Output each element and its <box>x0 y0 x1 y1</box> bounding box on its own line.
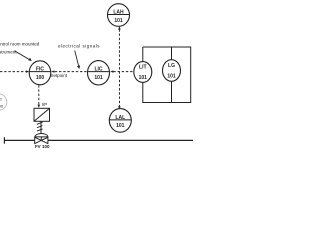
svg-text:instrument: instrument <box>0 49 17 54</box>
wire: dashed electrical signal from FT to FIC <box>0 71 26 73</box>
svg-text:LG: LG <box>168 63 175 69</box>
svg-text:electrical signals: electrical signals <box>58 43 100 48</box>
wire: dashed vertical signal to LAH and LAL <box>118 26 121 109</box>
svg-text:LIC: LIC <box>94 67 102 73</box>
vessel bridle piping <box>142 47 190 104</box>
annotation leader arrow to FIC <box>15 51 32 61</box>
wire: dashed signal FIC to I/P converter <box>38 85 41 108</box>
I/P converter box <box>34 108 50 121</box>
instrument LIT 101 (level transmitter) <box>134 62 152 83</box>
instrument LG 101 (level gauge) <box>163 60 181 82</box>
svg-text:101: 101 <box>114 18 123 24</box>
svg-text:control room mounted: control room mounted <box>0 41 40 46</box>
svg-text:101: 101 <box>167 73 176 79</box>
svg-text:101: 101 <box>94 75 103 81</box>
annotation text: control room mounted instrument <box>0 41 40 54</box>
instrument FT 100 (flow transmitter, clipped at edge) <box>0 94 7 111</box>
wire: bridle bottom header <box>142 102 190 104</box>
wire: dashed setpoint signal LIC to FIC <box>51 70 88 78</box>
valve FV 100 <box>35 133 50 148</box>
wire: bridle top header <box>143 46 191 48</box>
svg-text:Setpoint: Setpoint <box>51 73 68 78</box>
wire: LIT stem upper <box>142 47 144 62</box>
instrument LIC 101 (level controller) <box>88 61 110 85</box>
wire: process pipe left segment <box>4 139 34 141</box>
wire: LIT stem lower <box>142 82 144 102</box>
wire: process pipe right segment <box>48 139 193 141</box>
svg-text:LAL: LAL <box>115 115 125 121</box>
instrument LAL 101 (level alarm low) <box>109 109 131 133</box>
svg-text:101: 101 <box>116 123 125 129</box>
instrument LAH 101 (level alarm high) <box>108 4 130 27</box>
svg-text:FV 100: FV 100 <box>35 144 50 149</box>
wire: dashed signal LIT to LIC <box>110 70 134 72</box>
pipe end flange <box>3 137 5 143</box>
svg-text:LIT: LIT <box>139 65 147 71</box>
wire: bridle right riser <box>190 47 192 104</box>
wire: pneumatic signal I/P to valve actuator <box>37 121 43 133</box>
svg-text:100: 100 <box>36 75 45 81</box>
svg-text:I/P: I/P <box>42 102 48 107</box>
svg-text:101: 101 <box>139 75 148 81</box>
wire: LG stem upper <box>171 47 173 60</box>
svg-text:LAH: LAH <box>113 10 124 16</box>
svg-text:FIC: FIC <box>36 67 44 73</box>
instrument FIC 100 (flow controller) <box>29 61 51 85</box>
wire: LG stem lower <box>171 81 173 102</box>
annotation leader arrow to signal line <box>75 51 80 69</box>
